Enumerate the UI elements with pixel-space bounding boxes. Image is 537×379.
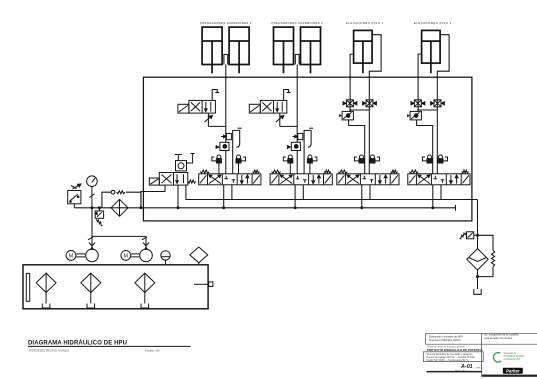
title block frame <box>425 333 537 344</box>
pressure gauge PG <box>87 176 98 208</box>
svg-text:Ingeniería hidráulica básica: Ingeniería hidráulica básica <box>429 338 461 342</box>
pressure filter F1 <box>111 199 128 216</box>
V4 P/T drops <box>433 185 441 208</box>
svg-text:ELEVADORES PISO 2: ELEVADORES PISO 2 <box>414 21 452 25</box>
svg-text:M: M <box>69 253 74 259</box>
pilot drain Y1 <box>212 90 219 101</box>
drain port <box>194 282 213 287</box>
spec box <box>423 352 483 362</box>
reservoir tank <box>23 265 208 309</box>
junction dots return <box>476 234 479 237</box>
svg-text:PRENSADORES SUPERIORES 1: PRENSADORES SUPERIORES 1 <box>200 21 252 25</box>
drain hook group 2 <box>304 128 313 174</box>
pilot relief on V0 <box>175 154 195 171</box>
springs V1 <box>200 170 259 173</box>
pilot drain Y2 <box>284 90 291 101</box>
pipe group 3 rod side <box>369 35 381 77</box>
green logo <box>493 353 501 362</box>
pipe group 3 cap side <box>350 54 354 77</box>
V0 drain to bus <box>141 185 165 208</box>
pump P2 <box>140 236 153 261</box>
pipe group 4 rod side <box>437 35 449 77</box>
directional valve V4 4/3 solenoid <box>408 174 470 185</box>
cylinder group 2 left <box>274 27 294 73</box>
Parker logo <box>503 368 523 374</box>
cylinder group 4 <box>422 30 441 73</box>
V3 P/T drops <box>362 185 370 208</box>
restrictor Y2 <box>276 113 297 126</box>
jog line group 4 <box>417 120 433 174</box>
cylinder group 1 left <box>202 27 222 73</box>
junction dots P bus <box>91 206 94 209</box>
svg-text:M: M <box>124 253 129 259</box>
svg-text:PRENSADORES SUPERIORES 2: PRENSADORES SUPERIORES 2 <box>271 21 323 25</box>
restrictor Y1 <box>204 113 225 126</box>
pressure switch S1 <box>68 191 81 208</box>
pipe group 4 cap side <box>418 54 422 77</box>
svg-text:rev 2: rev 2 <box>477 365 483 369</box>
svg-text:DIAGRAMA HIDRÁULICO DE HPU: DIAGRAMA HIDRÁULICO DE HPU <box>28 339 127 346</box>
drain hook group 1 <box>233 128 242 174</box>
V0 tank drop <box>177 185 179 208</box>
directional valve V3 4/3 solenoid <box>337 174 399 185</box>
cylinder group 1 right <box>229 27 249 73</box>
motor P1 <box>66 251 85 261</box>
counterbalance valve group 3 <box>339 111 353 120</box>
filter bypass check <box>102 190 141 208</box>
pilot stage group 1 <box>221 133 231 139</box>
check valve group 3 D <box>370 155 380 163</box>
level gauge <box>26 273 29 301</box>
spring V0 <box>188 180 196 183</box>
suction strainer S1 <box>36 273 56 308</box>
return check <box>460 232 478 239</box>
work lines group 3 <box>349 77 369 174</box>
svg-text:No. integrantes de la cuadrill: No. integrantes de la cuadrilla <box>484 333 519 337</box>
check/throttle valve group 3 B <box>363 100 377 107</box>
svg-text:ELEVADORES PISO 1: ELEVADORES PISO 1 <box>346 21 384 25</box>
unloading valve V0 <box>149 173 188 186</box>
check valve group 3 C <box>355 155 365 163</box>
svg-text:certificación ISO: certificación ISO <box>504 358 521 361</box>
switch arrow <box>71 184 81 189</box>
springs V2 <box>272 170 331 173</box>
check valve group 1 A <box>212 155 222 174</box>
pipe between group 2 cylinders <box>295 54 299 77</box>
return line <box>477 200 479 250</box>
filler breather <box>190 247 208 265</box>
P bus <box>74 205 455 211</box>
work line group 2 from cylinders <box>296 77 298 174</box>
svg-text:Fluido ISO VG46 — Temperatura: Fluido ISO VG46 — Temperatura 50 °C <box>427 359 469 362</box>
filter bypass relief <box>478 235 495 276</box>
title block texts <box>429 333 519 343</box>
check/throttle valve group 4 A <box>411 100 425 107</box>
check valve group 2 A <box>283 155 293 174</box>
pump P1 <box>86 236 99 261</box>
directional valve V2 4/3 solenoid <box>270 174 332 185</box>
work lines group 4 <box>417 77 437 174</box>
motor P2 <box>121 251 139 261</box>
check/throttle valve group 4 B <box>431 100 445 107</box>
revision row <box>427 347 484 352</box>
svg-text:Elaborado y revisado de HPU: Elaborado y revisado de HPU <box>429 335 463 339</box>
svg-text:PROYECTO HIDRÁULICO DE POTENCI: PROYECTO HIDRÁULICO DE POTENCIA <box>427 347 484 352</box>
pipe between group 1 cylinders <box>224 54 228 77</box>
pilot stage group 2 <box>293 133 303 139</box>
suction strainer S3 <box>135 273 155 308</box>
directional valve V1 4/3 solenoid <box>199 174 261 185</box>
pilot check valve group 2 <box>287 142 301 150</box>
svg-text:Parker: Parker <box>506 369 520 374</box>
V2 P/T drops <box>295 185 303 208</box>
svg-text:Sistemas de: Sistemas de <box>504 352 517 355</box>
tank breather gauge <box>161 251 170 265</box>
relief valve RV1 <box>95 208 103 226</box>
svg-text:para armado con tanque: para armado con tanque <box>484 336 513 340</box>
counterbalance valve group 4 <box>407 111 421 120</box>
check valve group 1 B <box>236 155 246 174</box>
bottom bar <box>482 375 537 377</box>
check valve group 2 B <box>307 155 317 174</box>
check/throttle valve group 3 A <box>343 100 357 107</box>
manifold block outline <box>143 77 472 221</box>
work line group 1 from cylinders <box>225 77 227 174</box>
springs V3 <box>338 170 397 173</box>
V1 P/T drops <box>224 185 232 208</box>
heavy bar <box>427 371 483 373</box>
svg-text:Escala 1:50: Escala 1:50 <box>145 348 160 352</box>
T gallery <box>186 185 478 199</box>
svg-text:HIDROELÉCTRICA EL MUNDO: HIDROELÉCTRICA EL MUNDO <box>29 347 70 352</box>
pilot check valve group 1 <box>215 142 229 150</box>
solenoid valve Y1 (2/2 pilot) <box>178 100 216 113</box>
jog line group 3 <box>349 120 365 174</box>
return filter F2 <box>467 249 488 270</box>
solenoid valve Y2 (2/2 pilot) <box>249 100 286 113</box>
springs V4 <box>409 170 468 173</box>
check valve group 4 C <box>423 155 433 163</box>
pump discharge riser <box>92 208 146 237</box>
suction strainer S2 <box>81 273 101 308</box>
svg-text:POTENCIA FLUIDA: POTENCIA FLUIDA <box>504 355 525 358</box>
cylinder group 2 right <box>301 27 321 73</box>
to tank <box>474 270 481 294</box>
check valve group 4 D <box>438 155 448 163</box>
cylinder group 3 <box>354 30 373 73</box>
